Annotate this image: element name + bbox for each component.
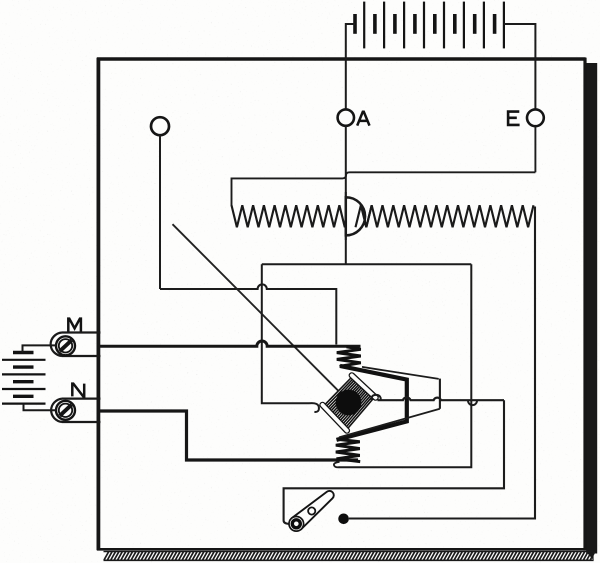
terminal A (338, 109, 354, 125)
wire: left terminal down to y=289 (159, 135, 161, 289)
switch lever arm (290, 491, 334, 530)
binding post M (screw head) (51, 333, 101, 357)
contact bar (thin) (439, 379, 441, 409)
crystal left clip hook (310, 403, 319, 412)
wire: horizontal y=289 to corner, hop over box edge (160, 284, 336, 344)
spring S1 (upper) (337, 347, 361, 367)
wire: N stepped run to lower spring (100, 411, 358, 460)
wire: E terminal down to bracket corner (534, 126, 536, 172)
hop of box right edge under output wire (468, 401, 477, 406)
wire: box right edge down (339, 264, 472, 467)
wire: box from terminal A wire (top edge) (262, 263, 472, 265)
crystal dark core (336, 390, 362, 416)
label A (357, 112, 369, 126)
upper whisker (thin) to contact bar (362, 367, 439, 379)
upper clamp arm (thick) (337, 366, 407, 440)
crystal clamp rail (upper-right) (352, 375, 376, 397)
lower whisker (thin) (339, 409, 440, 438)
rheostat slider contact bump (346, 192, 372, 240)
battery B2 (left, 4 cells) (2, 353, 46, 404)
binding post N (screw head) (51, 399, 100, 422)
wire battery right lead to terminal E (504, 24, 536, 110)
terminal E (527, 109, 544, 126)
crystal detector block (324, 377, 375, 430)
wire: left battery top lead to M (23, 345, 57, 352)
resistor R1 rheostat winding (232, 205, 534, 227)
wire: corner down to switch bracket (284, 400, 504, 520)
board panel outline (97, 58, 586, 551)
wire: foot to pivot (284, 521, 291, 524)
label N (72, 384, 84, 397)
crystal clamp rail (lower-left) (323, 405, 347, 431)
board base hatched edge (104, 552, 595, 561)
wire: curl from spring foot to lower run (334, 462, 340, 468)
crystal right clip hook (371, 395, 380, 400)
switch pivot (289, 517, 304, 532)
wire: M to upper spring (hop over box edge) (100, 341, 361, 346)
label E (508, 112, 519, 125)
spring S2 (lower) (336, 439, 360, 461)
wire: crystal right to switch-post corner (hops) (378, 397, 505, 400)
label M (68, 319, 81, 332)
wire: stud to rheostat right end (349, 207, 535, 519)
board shadow right (586, 63, 597, 554)
terminal (unlabeled, left) (151, 117, 169, 135)
wire: terminal A down to slider and coherer box (345, 126, 347, 264)
wire: left battery bottom lead to N (24, 404, 57, 411)
battery B1 (top, 8 cells) (355, 2, 504, 49)
wire: rheostat top bracket with jog at A-wire (232, 172, 536, 206)
switch contact stud (dot) (338, 514, 349, 525)
wire: box left edge down to crystal clip (262, 264, 310, 403)
slider arm (diagonal) (173, 224, 345, 397)
wire battery left lead to terminal A (346, 24, 355, 109)
